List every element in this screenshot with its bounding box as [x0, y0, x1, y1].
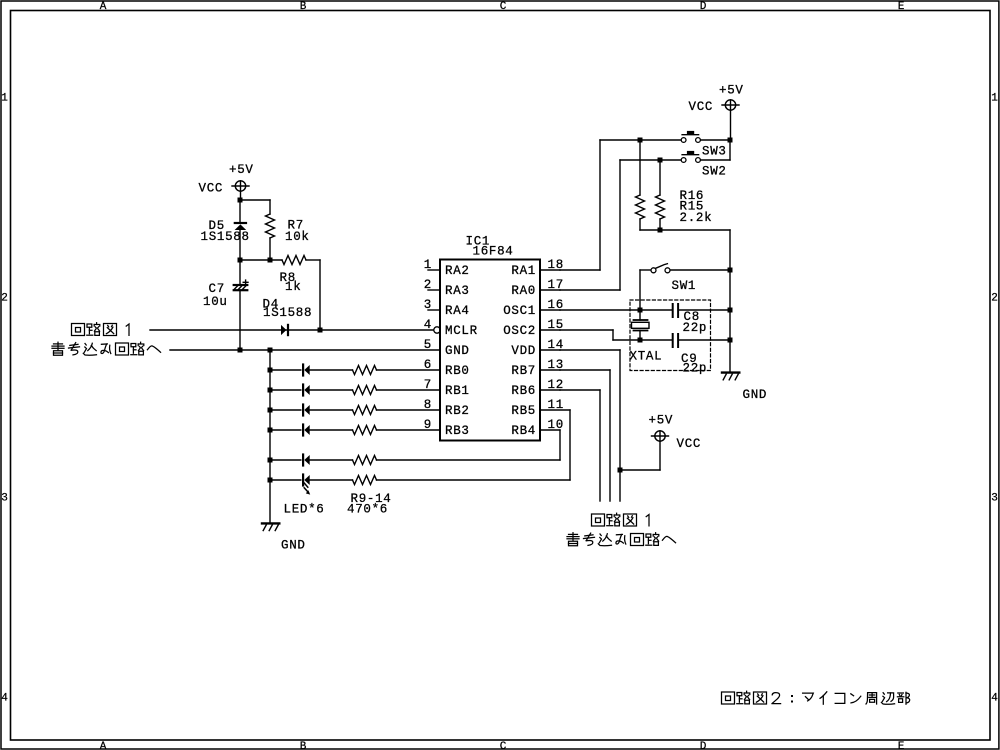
pin stub RA4 pin3: [428, 309, 440, 311]
wire SW1 right to rail: [670, 269, 730, 271]
wire LED 2 to R10: [310, 389, 353, 391]
svg-text:SW3: SW3: [702, 145, 727, 159]
svg-text:16F84: 16F84: [473, 245, 514, 259]
wire bus to LED 3: [270, 409, 301, 411]
node junction at 730,270: [728, 268, 733, 273]
svg-text:RA2: RA2: [445, 264, 470, 278]
node junction at 730,140: [728, 138, 733, 143]
svg-text:5: 5: [424, 338, 432, 352]
wire LED 3 to R11: [310, 409, 353, 411]
wire bus to LED 5: [270, 459, 301, 461]
LED arrow marks: [304, 483, 310, 495]
node junction at 270,350: [268, 348, 273, 353]
pin stub RA3 pin2: [428, 289, 440, 291]
resistor R8 (horizontal): [282, 256, 320, 265]
svg-text:RA0: RA0: [511, 284, 536, 298]
label kanji 書き込み回路へ (bottom): [567, 533, 676, 546]
pin numbers right: [548, 258, 564, 432]
wire RA0 to SW2: [560, 160, 681, 290]
svg-text:VCC: VCC: [677, 437, 702, 451]
node junction at 730,340: [728, 338, 733, 343]
svg-text:8: 8: [424, 398, 432, 412]
wire bus to LED 6: [270, 479, 301, 481]
ground symbol GND (left): [262, 523, 279, 530]
wire LED ground bus 270,350 to 270,521: [269, 350, 271, 523]
svg-text:470*6: 470*6: [347, 503, 388, 517]
frame row numbers right: [991, 93, 998, 705]
svg-text:GND: GND: [281, 539, 306, 553]
node junction bus row RB3: [268, 428, 273, 433]
capacitor C7 (electrolytic): [234, 260, 248, 350]
wire R13 to pin RB4: [377, 459, 561, 461]
wire R16/R15 bottom to right rail: [640, 230, 730, 270]
wire SW3 to +5V junction: [701, 139, 730, 141]
svg-text:RA3: RA3: [445, 284, 470, 298]
resistor R13 470: [353, 456, 377, 465]
node junction at 730,310: [728, 308, 733, 313]
wire SW1 left drop: [640, 270, 651, 310]
wire R9 to pin RB0: [377, 369, 441, 371]
power symbol VCC +5V (middle): [620, 431, 669, 470]
svg-text:VDD: VDD: [511, 344, 536, 358]
resistor R14 470: [353, 476, 377, 485]
diode D5 (vertical, cathode up): [235, 200, 247, 260]
svg-text:22p: 22p: [683, 321, 708, 335]
resistor R10 470: [353, 386, 377, 395]
wire bus to LED 1: [270, 369, 301, 371]
svg-text:6: 6: [424, 358, 432, 372]
svg-text:D: D: [700, 1, 707, 13]
wire R14 to pin RB5: [377, 479, 571, 481]
wire LED 1 to R9: [310, 369, 353, 371]
pin stub right 15: [540, 329, 560, 331]
resistor R16 (vertical): [636, 140, 645, 230]
switch SW1: [651, 264, 670, 273]
LED 1 (cathode left): [303, 365, 310, 376]
wire riser x=570 to pin 11: [569, 410, 571, 480]
label kanji 回路図１ (left): [72, 323, 130, 336]
svg-text:3: 3: [1, 493, 8, 505]
svg-text:C7: C7: [209, 282, 225, 296]
node junction bus row RB2: [268, 408, 273, 413]
label kanji 回路図１ (bottom): [592, 513, 650, 526]
pin names right: [503, 264, 536, 438]
svg-text:1: 1: [991, 93, 998, 105]
node junction bus row RB4: [268, 458, 273, 463]
pin MCLR bubble pin4: [434, 327, 440, 333]
svg-text:RB2: RB2: [445, 404, 470, 418]
svg-text:1S1588: 1S1588: [263, 306, 312, 320]
pin numbers left: [424, 258, 432, 432]
resistor R9 470: [353, 366, 377, 375]
svg-text:RB5: RB5: [511, 404, 536, 418]
switch SW2: [681, 151, 700, 163]
node junction at 640,340: [638, 338, 643, 343]
wire OSC1 row y=310: [560, 309, 672, 311]
svg-text:C: C: [500, 1, 507, 13]
node junction at 660,160: [658, 158, 663, 163]
svg-text:XTAL: XTAL: [630, 350, 663, 364]
svg-text:10u: 10u: [203, 295, 228, 309]
resistor R15 (vertical): [656, 160, 665, 230]
wire LED 4 to R12: [310, 429, 353, 431]
svg-text:RB3: RB3: [445, 424, 470, 438]
svg-text:2: 2: [991, 293, 998, 305]
svg-text:B: B: [300, 1, 307, 13]
wire LED 6 to R14: [310, 479, 353, 481]
svg-text:+5V: +5V: [229, 163, 254, 177]
label kanji 書き込み回路へ (left): [52, 342, 161, 355]
pin stub right 12: [540, 389, 560, 391]
svg-text:OSC2: OSC2: [503, 324, 536, 338]
frame column letters top: [100, 1, 905, 13]
resistor R11 470: [353, 406, 377, 415]
wire RA1 to SW3: [560, 140, 681, 270]
svg-text:RB7: RB7: [511, 364, 536, 378]
svg-text:C: C: [500, 741, 507, 750]
IC U1 16F84 body: [440, 260, 540, 441]
svg-text:D: D: [700, 741, 707, 750]
svg-text:VCC: VCC: [689, 100, 714, 114]
node junction at 240,260: [238, 258, 243, 263]
svg-text:1: 1: [1, 93, 8, 105]
wire bus to LED 2: [270, 389, 301, 391]
node junction at 640,310: [638, 308, 643, 313]
diode D4 (horizontal, cathode right): [281, 325, 288, 335]
node junction at 660,230: [658, 228, 663, 233]
wire RB6 down: [560, 390, 600, 501]
svg-text:LED*6: LED*6: [284, 503, 325, 517]
pin stub right 17: [540, 289, 560, 291]
wire RB7 down: [560, 370, 610, 501]
LED 4 (cathode left): [303, 425, 310, 436]
node junction bus row RB5: [268, 478, 273, 483]
svg-text:OSC1: OSC1: [503, 304, 536, 318]
svg-text:B: B: [300, 741, 307, 750]
ground symbol GND (right): [722, 373, 739, 380]
pin stub right 11: [540, 409, 570, 411]
pin stub right 13: [540, 369, 560, 371]
frame column letters bottom: [100, 741, 905, 750]
wire R8 down to MCLR line: [319, 260, 321, 330]
svg-text:RA1: RA1: [511, 264, 536, 278]
svg-text:1: 1: [424, 258, 432, 272]
resistor R12 470: [353, 426, 377, 435]
node junction bus row RB0: [268, 368, 273, 373]
wire 240,260 to 282,260: [240, 259, 282, 261]
wire R12 to pin RB3: [377, 429, 441, 431]
svg-text:RB4: RB4: [511, 424, 536, 438]
switch SW3: [681, 131, 700, 143]
title kanji 回路図２：マイコン周辺部: [722, 691, 910, 704]
svg-text:RA4: RA4: [445, 304, 470, 318]
svg-text:SW1: SW1: [672, 279, 697, 293]
wire bus to LED 4: [270, 429, 301, 431]
svg-text:2.2k: 2.2k: [680, 211, 713, 225]
pin names left: [445, 264, 478, 438]
node junction bus row RB1: [268, 388, 273, 393]
capacitor C9: [673, 334, 730, 347]
svg-text:A: A: [100, 741, 107, 750]
LED 2 (cathode left): [303, 385, 310, 396]
svg-text:10k: 10k: [285, 230, 310, 244]
wire 240,200 to 270,200: [240, 199, 270, 201]
svg-text:E: E: [898, 1, 905, 13]
wire GND row y=350: [170, 349, 440, 351]
svg-text:RB0: RB0: [445, 364, 470, 378]
svg-text:RB6: RB6: [511, 384, 536, 398]
svg-text:7: 7: [424, 378, 432, 392]
pin stub RA2 pin1: [428, 269, 440, 271]
LED 5 (cathode left): [303, 455, 310, 466]
svg-text:1k: 1k: [285, 280, 301, 294]
wire VDD to +5V tap: [560, 350, 620, 501]
LED 3 (cathode left): [303, 405, 310, 416]
wire right rail down to GND: [729, 270, 731, 372]
svg-text:VCC: VCC: [199, 182, 224, 196]
svg-text:+5V: +5V: [649, 414, 674, 428]
pin stub right 18: [540, 269, 560, 271]
svg-text:MCLR: MCLR: [445, 324, 478, 338]
svg-text:A: A: [100, 1, 107, 13]
svg-text:2: 2: [424, 278, 432, 292]
svg-text:4: 4: [1, 693, 8, 705]
svg-text:GND: GND: [445, 344, 470, 358]
svg-text:22p: 22p: [683, 362, 708, 376]
capacitor C8: [673, 304, 730, 317]
pin stub right 14: [540, 349, 560, 351]
node junction at 640,140: [638, 138, 643, 143]
frame row numbers left: [1, 93, 8, 705]
dashed box oscillator: [630, 300, 711, 371]
resistor R7 (vertical): [266, 200, 275, 260]
svg-text:+5V: +5V: [719, 84, 744, 98]
wire SW2 up to +5V junction: [701, 140, 730, 160]
svg-text:GND: GND: [743, 388, 768, 402]
LED 6 (cathode left): [303, 475, 310, 486]
svg-text:4: 4: [991, 693, 998, 705]
crystal XTAL: [632, 310, 650, 340]
svg-text:2: 2: [1, 293, 8, 305]
node junction at 240,200: [238, 198, 243, 203]
wire MCLR row y=330: [150, 329, 434, 331]
node junction at 320,330: [318, 328, 323, 333]
svg-text:3: 3: [424, 298, 432, 312]
power symbol VCC +5V (top left): [232, 181, 249, 200]
pin stub right 16: [540, 309, 560, 311]
svg-text:SW2: SW2: [702, 165, 727, 179]
node junction at 270,260: [268, 258, 273, 263]
wire OSC2 to C9 row: [560, 330, 672, 340]
svg-text:E: E: [898, 741, 905, 750]
pin stub right 10: [540, 429, 560, 431]
node junction at 620,470: [618, 468, 623, 473]
svg-text:3: 3: [991, 493, 998, 505]
wire R11 to pin RB2: [377, 409, 441, 411]
node junction at 240,350: [238, 348, 243, 353]
svg-text:4: 4: [424, 318, 432, 332]
svg-text:1S1588: 1S1588: [201, 230, 250, 244]
wire riser x=560 to pin 10: [559, 430, 561, 460]
power symbol VCC +5V (top right): [722, 100, 739, 140]
svg-text:9: 9: [424, 418, 432, 432]
wire LED 5 to R13: [310, 459, 353, 461]
svg-text:RB1: RB1: [445, 384, 470, 398]
wire R10 to pin RB1: [377, 389, 441, 391]
